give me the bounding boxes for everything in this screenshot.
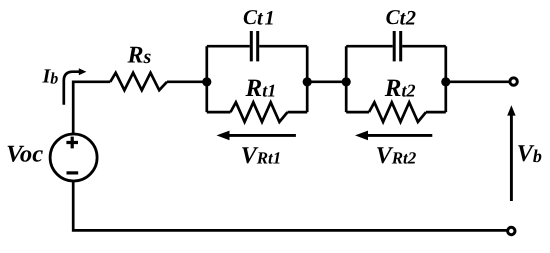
svg-text:Ct1: Ct1 — [243, 5, 277, 30]
wire from Voc top to corner and right to Rs — [73, 82, 110, 134]
resistor Rs — [110, 73, 167, 90]
wire Voc bottom to negative terminal — [73, 181, 507, 230]
wire node D to positive terminal — [446, 80, 509, 83]
wire Rs to node A — [167, 80, 207, 83]
wire right rail of RC2 — [444, 46, 447, 112]
voltage arrow VRt1 — [217, 131, 296, 141]
current arrow Ib — [64, 68, 87, 105]
terminal + (open circle) — [510, 78, 517, 85]
svg-text:Ct2: Ct2 — [386, 5, 417, 30]
terminal - (open circle) — [508, 227, 515, 234]
voltage arrow Vb — [507, 105, 515, 201]
wire left rail of RC1 — [205, 46, 208, 112]
capacitor Ct1 — [207, 31, 307, 61]
capacitor Ct2 — [346, 31, 446, 61]
svg-text:Vb: Vb — [517, 141, 542, 167]
resistor Rt2 — [346, 102, 446, 122]
node B (junction dot) — [303, 77, 312, 86]
voltage source U1 (Voc) — [50, 134, 97, 181]
wire node B to node C — [307, 80, 346, 83]
svg-text:Voc: Voc — [6, 141, 43, 167]
node C (junction dot) — [342, 77, 351, 86]
wire right rail of RC1 — [306, 46, 309, 112]
svg-text:Rs: Rs — [127, 43, 152, 69]
node D (junction dot) — [441, 77, 450, 86]
node A (junction dot) — [202, 77, 211, 86]
resistor Rt1 — [207, 102, 307, 122]
voltage arrow VRt2 — [355, 131, 432, 141]
wire left rail of RC2 — [345, 46, 348, 112]
